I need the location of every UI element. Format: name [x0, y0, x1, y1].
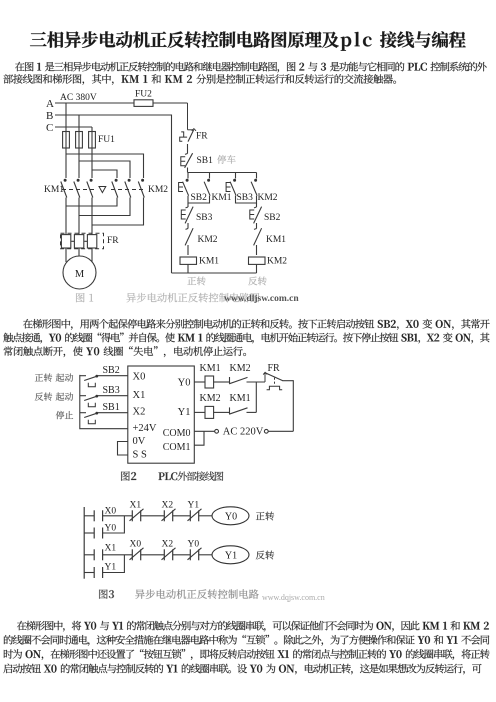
FR heater 1	[61, 235, 70, 248]
thermal contact FR fig2	[264, 373, 266, 382]
linkage dashed line left	[62, 189, 97, 191]
wire branch1 a	[84, 532, 94, 534]
svg-text:KM2: KM2	[267, 257, 287, 267]
svg-text:SB3: SB3	[237, 193, 254, 203]
svg-text:X1: X1	[130, 501, 142, 511]
wire Y0 node	[247, 381, 266, 383]
FR heater links	[71, 240, 74, 242]
svg-text:SB1: SB1	[197, 156, 214, 166]
wire right rail fig2	[292, 380, 294, 431]
wire left branch 2	[187, 223, 189, 229]
coil KM2 fig2	[205, 406, 214, 418]
contact Y1 seal	[93, 567, 95, 578]
wire 0V-SS loop	[118, 442, 128, 456]
wire rung1 c	[141, 515, 165, 517]
svg-text:M: M	[75, 269, 85, 280]
svg-text:X2: X2	[162, 540, 174, 550]
svg-text:KM2: KM2	[148, 185, 168, 195]
svg-text:KM1: KM1	[200, 363, 221, 374]
figure 2 caption	[121, 471, 136, 480]
thermal relay FR box	[61, 233, 104, 249]
wire to motor 3	[91, 248, 93, 262]
svg-text:B: B	[46, 110, 53, 122]
svg-text:Y0: Y0	[225, 511, 237, 522]
wire Y1 out	[194, 411, 205, 413]
pushbutton SB2 NC interlock	[254, 206, 257, 209]
contact X2 NC	[163, 510, 165, 521]
svg-text:SB3: SB3	[196, 213, 213, 223]
svg-text:S S: S S	[133, 450, 147, 461]
svg-text:KM1: KM1	[212, 193, 232, 203]
contact X0	[93, 510, 95, 521]
wire join left pair	[188, 196, 210, 203]
svg-text:KM2: KM2	[230, 363, 251, 374]
contact X1 NC	[131, 510, 133, 521]
wire rung2 a	[84, 554, 94, 556]
wire phase C	[55, 126, 92, 128]
contact KM2 aux NO	[255, 179, 257, 181]
wire KM2 out 3	[92, 198, 144, 226]
wire branch2 a	[84, 572, 94, 574]
svg-text:COM1: COM1	[163, 442, 191, 453]
contact KM2 NC fig2	[229, 377, 231, 384]
svg-text:Y1: Y1	[225, 550, 237, 561]
contactor KM2 main contact 1	[115, 179, 117, 181]
linkage dashed line right	[111, 189, 145, 191]
wire SB2 to X0	[97, 375, 128, 377]
wire join right pair	[236, 196, 257, 203]
PLC box	[128, 366, 195, 463]
svg-text:AC 380V: AC 380V	[60, 93, 97, 103]
paragraph 2 line 2	[3, 333, 489, 344]
tingzhi label	[56, 411, 73, 419]
svg-text:Y1: Y1	[105, 562, 117, 572]
paragraph 2 line 3	[4, 346, 246, 357]
wire rung1 e	[199, 515, 212, 517]
pushbutton SB3 NC interlock	[186, 206, 189, 209]
svg-text:Y0: Y0	[105, 524, 117, 534]
ladder left rail	[83, 507, 85, 579]
thermal contact FR	[187, 103, 189, 130]
zhengzhuan label fig3	[256, 512, 274, 521]
wire rung1 d	[173, 515, 191, 517]
svg-text:COM0: COM0	[163, 428, 191, 439]
wire tap KM1 aux	[209, 173, 211, 179]
paragraph 2 line 1	[23, 319, 490, 330]
svg-text:X1: X1	[105, 544, 117, 554]
wire right branch	[256, 203, 258, 207]
wire right branch 4	[256, 265, 258, 274]
wire SB3 to X1	[97, 395, 128, 397]
wire phase A	[55, 102, 134, 104]
svg-text:KM1: KM1	[44, 185, 64, 195]
contact X0 NC	[131, 549, 133, 560]
wire Y1 out 2	[214, 411, 229, 413]
svg-text:Y0: Y0	[188, 540, 200, 550]
wire to motor 1	[65, 248, 67, 262]
motor M circle	[63, 256, 96, 289]
AC source left terminal	[215, 429, 219, 433]
linkage triangle	[99, 187, 106, 193]
wire COM bracket	[194, 431, 204, 445]
fanzhuan label fig1	[248, 276, 266, 285]
pushbutton SB2 fig2	[80, 375, 86, 377]
svg-text:AC 220V: AC 220V	[223, 427, 264, 438]
svg-text:X0: X0	[130, 540, 142, 550]
wire SB1 to X2	[97, 412, 128, 414]
wire KM2 out 1	[66, 198, 117, 207]
svg-text:X2: X2	[162, 501, 174, 511]
svg-text:Y1: Y1	[178, 407, 191, 418]
contact KM2 NC interlock	[186, 228, 189, 231]
svg-text:X1: X1	[133, 390, 146, 401]
svg-text:Y1: Y1	[188, 501, 200, 511]
wire FR to SB1	[187, 144, 189, 154]
contactor KM1 main contact 2	[77, 179, 79, 181]
coil KM1	[180, 257, 197, 264]
svg-text:KM2: KM2	[258, 193, 278, 203]
paragraph 3 line 3	[4, 649, 490, 660]
wire motor phase U	[65, 198, 67, 235]
contact Y0 NC	[189, 549, 191, 560]
wire B to KM2 contact 2	[79, 161, 130, 178]
pushbutton SB3 (NO rev start)	[234, 179, 236, 181]
wire right branch 2	[256, 223, 258, 229]
contactor KM2 main contact 2	[128, 179, 130, 181]
svg-text:SB2: SB2	[264, 213, 281, 223]
svg-text:KM1: KM1	[230, 393, 251, 404]
paragraph 3 line 4	[3, 664, 481, 675]
wire C to KM2 contact 1	[92, 170, 117, 178]
fanzhuan label fig3	[256, 551, 274, 560]
wire B tap	[78, 115, 80, 132]
zhengzhuan qidong label	[35, 373, 73, 381]
wire rung1 b	[103, 515, 133, 517]
contactor KM2 main contact 3	[142, 179, 144, 181]
pushbutton SB3 fig2	[80, 395, 86, 397]
svg-text:A: A	[46, 98, 54, 110]
title text	[30, 31, 466, 50]
FR heater 2	[74, 235, 83, 248]
zhengzhuan label fig1	[187, 276, 205, 285]
paragraph 1 line 2	[3, 74, 396, 85]
FR heater 3	[87, 235, 96, 248]
svg-text:+24V: +24V	[133, 423, 157, 434]
svg-text:FR: FR	[196, 132, 208, 142]
svg-text:SB2: SB2	[103, 365, 120, 376]
svg-text:www.dqjsw.com.cn: www.dqjsw.com.cn	[262, 593, 325, 602]
output coil Y1	[212, 546, 249, 564]
fuse FU1 b	[76, 132, 83, 149]
svg-text:FU1: FU1	[98, 135, 115, 145]
wire SB1 down	[187, 168, 189, 173]
wire C tap	[91, 127, 93, 132]
wire rung2 c	[141, 554, 165, 556]
wire to motor 2	[78, 248, 80, 257]
wire branch1 b	[103, 516, 125, 533]
svg-text:SB2: SB2	[191, 193, 208, 203]
wire rung2 e	[199, 554, 212, 556]
wire COM0 out	[194, 430, 214, 432]
contact KM1 NC fig2	[229, 407, 231, 414]
svg-text:SB1: SB1	[103, 402, 120, 413]
wire rail to terminal	[268, 430, 293, 432]
wire motor phase W	[91, 198, 93, 235]
wire FR to rail	[282, 380, 293, 382]
fuse FU1 c	[89, 132, 96, 149]
svg-text:www.dljsw.com.cn: www.dljsw.com.cn	[224, 294, 299, 304]
wire phase B	[55, 115, 172, 273]
wire button common rail	[80, 375, 128, 429]
pushbutton SB1 fig2	[80, 412, 86, 414]
paragraph 3 line 2	[4, 635, 489, 646]
wire branch2 b	[103, 555, 125, 573]
output coil Y0	[212, 507, 249, 525]
wire left branch 4	[187, 265, 189, 274]
svg-text:KM2: KM2	[198, 235, 218, 245]
pushbutton SB1 (NC stop)	[185, 153, 188, 156]
contact X2 NC rung2	[163, 549, 165, 560]
wire Y0 out	[194, 381, 205, 383]
coil KM1 fig2	[205, 376, 214, 388]
fanzhuan qidong label	[35, 392, 73, 400]
svg-text:FR: FR	[107, 236, 119, 246]
contact Y1 NC	[189, 510, 191, 521]
wire KM2 out 2	[79, 198, 130, 216]
wire left branch	[187, 203, 189, 207]
wire Y1 node	[247, 411, 257, 413]
svg-text:SB3: SB3	[103, 385, 120, 396]
contact Y0 seal	[93, 528, 95, 539]
wire bottom rail	[172, 272, 257, 274]
coil KM2	[249, 257, 266, 264]
wire rung1 a	[84, 515, 94, 517]
contact X1 rung2	[93, 549, 95, 560]
svg-text:Y0: Y0	[178, 378, 191, 389]
wire tap SB3	[235, 173, 237, 179]
wire A tap	[65, 103, 67, 132]
svg-text:0V: 0V	[133, 436, 146, 447]
paragraph 3 line 1	[17, 621, 489, 632]
wire control bus	[188, 172, 257, 174]
wire tap SB2	[187, 173, 189, 179]
svg-text:FU2: FU2	[135, 90, 152, 100]
wire A to KM2 contact 3	[66, 154, 144, 178]
figure 1 caption	[76, 293, 93, 302]
svg-text:FR: FR	[268, 363, 281, 374]
figure 3 caption	[99, 589, 114, 598]
svg-text:KM1: KM1	[266, 235, 286, 245]
svg-text:KM2: KM2	[200, 393, 221, 404]
contact KM1 aux NO	[208, 179, 210, 181]
svg-text:KM1: KM1	[199, 257, 219, 267]
svg-text:X0: X0	[133, 372, 146, 383]
wire interlock vertical	[255, 382, 257, 412]
fuse FU1 a	[63, 132, 70, 149]
svg-text:X0: X0	[105, 507, 117, 517]
pushbutton SB2 (NO fwd start)	[186, 179, 188, 181]
wire tap KM2 aux	[256, 173, 258, 179]
wire rung2 d	[173, 554, 191, 556]
contactor KM1 main contact 3	[90, 179, 92, 181]
fuse FU2	[134, 100, 153, 107]
paragraph 1 line 1	[15, 62, 487, 73]
wire rung2 b	[103, 554, 133, 556]
SB1 ting che label	[217, 155, 235, 164]
wire left branch 3	[187, 245, 189, 255]
svg-text:X2: X2	[133, 407, 146, 418]
wire right branch 3	[256, 245, 258, 255]
contactor KM1 main contact 1	[64, 179, 66, 181]
AC source right terminal	[264, 429, 268, 433]
wire Y0 out 2	[214, 381, 229, 383]
svg-text:C: C	[46, 122, 53, 134]
contact KM1 NC interlock	[254, 228, 257, 231]
wire motor phase V	[78, 198, 80, 235]
